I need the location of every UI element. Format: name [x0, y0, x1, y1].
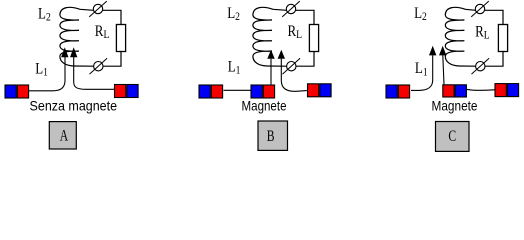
meter top (galvanometer) [286, 4, 295, 13]
left magnet path wire [29, 57, 65, 91]
far-left magnet travel line [224, 89, 251, 91]
resistor RL body [498, 25, 507, 52]
wire top right [296, 10, 314, 24]
meter bottom (galvanometer) [287, 61, 296, 70]
right magnet (red/blue) [308, 84, 319, 97]
panel A [5, 1, 138, 149]
coil L2 [253, 7, 287, 66]
meter top (galvanometer) [475, 4, 484, 13]
right motion arrowhead [70, 47, 77, 57]
left magnet path wire [411, 55, 433, 90]
right motion arrowhead [278, 50, 285, 59]
middle magnet (red/blue) [443, 85, 454, 97]
svg-text:Magnete: Magnete [432, 98, 478, 114]
svg-text:B: B [267, 127, 275, 144]
right magnet path wire [281, 59, 307, 92]
middle magnet (blue/red) [251, 85, 262, 98]
left magnet (blue/red) [386, 85, 397, 98]
right magnet (red/blue) [495, 84, 506, 97]
meter bottom (galvanometer) [94, 61, 103, 70]
svg-text:C: C [448, 127, 456, 144]
left magnet (blue/red) [5, 85, 16, 98]
answer box A [49, 122, 76, 149]
answer box B [258, 121, 288, 150]
wire bottom right [296, 52, 314, 67]
svg-text:Magnete: Magnete [242, 97, 287, 113]
svg-text:A: A [60, 127, 68, 144]
meter bottom (galvanometer) [476, 61, 485, 70]
right magnet (red/blue) [115, 85, 126, 98]
panel B [199, 1, 331, 150]
coil L2 [60, 7, 94, 66]
far-left magnet (blue/red) [199, 85, 210, 98]
right magnet path wire [74, 57, 114, 89]
wire top right [103, 10, 121, 24]
left motion arrowhead [61, 47, 68, 57]
resistor RL body [309, 25, 318, 52]
wire bottom right [103, 52, 121, 67]
middle to right magnet wire [467, 88, 495, 91]
wire top right [485, 10, 503, 24]
wire bottom right [485, 52, 503, 67]
svg-text:Senza magnete: Senza magnete [30, 97, 118, 113]
middle magnet motion arrow shaft [270, 59, 272, 85]
left motion arrowhead [429, 46, 436, 56]
resistor RL body [116, 25, 125, 52]
middle magnet arrowhead [439, 46, 446, 56]
middle magnet motion arrow shaft [443, 55, 444, 84]
answer box C [436, 122, 470, 152]
middle magnet arrowhead [267, 50, 274, 59]
meter top (galvanometer) [93, 4, 102, 13]
coil L2 [445, 7, 475, 66]
panel C [386, 1, 519, 151]
